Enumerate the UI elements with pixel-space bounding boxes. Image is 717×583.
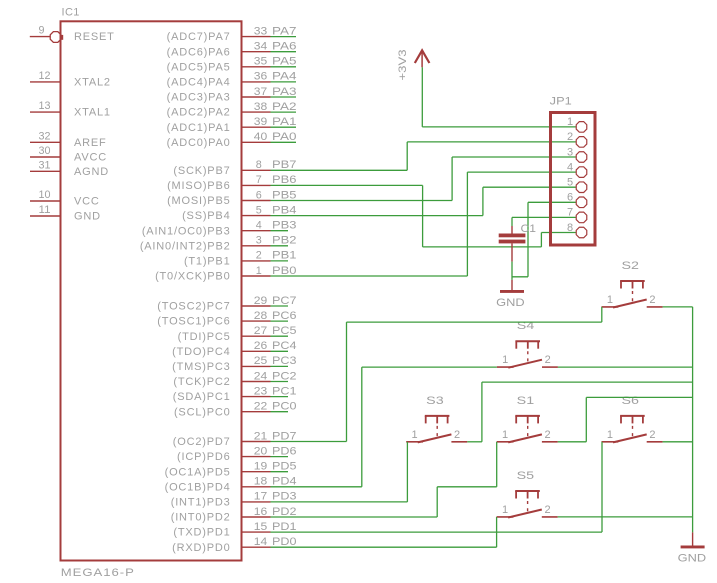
svg-text:(ADC4)PA4: (ADC4)PA4 [167, 77, 231, 89]
wire net PD0 vertical to S5 pin1 [496, 517, 498, 547]
wire net GND S3 horizontal to rail [482, 381, 693, 383]
svg-text:17: 17 [254, 491, 268, 503]
switch S5 actuator dashed link [527, 501, 529, 514]
svg-text:2: 2 [545, 354, 552, 366]
wire stub net PC2 [271, 381, 289, 383]
wire stub net PC1 [271, 396, 289, 398]
wire stub net PA0 [271, 141, 297, 143]
svg-text:PA0: PA0 [272, 131, 297, 143]
wire net PD7 from IC1 pin21 [271, 441, 347, 443]
svg-text:PA1: PA1 [272, 116, 297, 128]
wire net PB0 vertical [466, 172, 468, 276]
svg-text:PA7: PA7 [272, 25, 297, 37]
svg-text:38: 38 [254, 101, 268, 113]
svg-text:35: 35 [254, 56, 268, 68]
capacitor C1 bottom pin lead [511, 243, 513, 261]
switch S1 pin 1 lead [497, 441, 514, 443]
svg-text:27: 27 [254, 325, 268, 337]
wire net PB7 from IC1 pin8 [271, 169, 408, 171]
wire stub net PC4 [271, 350, 289, 352]
svg-text:1: 1 [256, 265, 262, 277]
switch S6 actuator bracket [620, 415, 645, 417]
wire net PD2 horizontal jog [437, 486, 497, 488]
wire net PD7 vertical [346, 322, 348, 441]
IC1 pin 39 (PA1) stub [242, 126, 271, 128]
IC1 pin 22 (PC0) stub [242, 411, 271, 413]
svg-text:GND: GND [74, 211, 101, 223]
IC1 pin 31 (AGND) stub [30, 170, 61, 172]
svg-text:20: 20 [254, 445, 268, 457]
wire net PD2 from IC1 pin16 [271, 516, 438, 518]
JP1 pin 5 octagon pad [576, 182, 587, 193]
svg-text:7: 7 [256, 174, 262, 186]
wire net GND S1 vertical [585, 397, 587, 441]
switch S3 actuator dashed link [436, 426, 438, 439]
wire net GND rail vertical [692, 307, 694, 533]
IC1 pin 13 (XTAL1) stub [30, 111, 61, 113]
svg-text:AREF: AREF [74, 137, 107, 149]
IC1 pin 11 (GND) stub [30, 215, 61, 217]
switch S4 actuator bracket [515, 340, 540, 342]
IC1 pin 9 (RESET) stub [30, 36, 50, 38]
switch S5 pin 1 lead [497, 516, 514, 518]
svg-text:1: 1 [607, 294, 614, 306]
IC1 pin 24 (PC2) stub [242, 381, 271, 383]
svg-text:5: 5 [256, 204, 262, 216]
svg-text:S5: S5 [517, 470, 535, 482]
IC1 pin 8 (PB7) stub [242, 169, 271, 171]
svg-text:PA6: PA6 [272, 41, 297, 53]
svg-text:IC1: IC1 [62, 7, 80, 19]
wire net PD2 vertical [436, 487, 438, 517]
svg-text:16: 16 [254, 506, 268, 518]
svg-text:RESET: RESET [74, 31, 115, 43]
wire stub net PB3 [271, 230, 289, 232]
svg-text:+3V3: +3V3 [397, 50, 409, 81]
svg-text:(AIN0/INT2)PB2: (AIN0/INT2)PB2 [140, 240, 231, 252]
svg-text:5: 5 [567, 177, 574, 189]
svg-text:PC7: PC7 [272, 295, 297, 307]
IC U1: IC1 MEGA16-P body [61, 21, 242, 560]
svg-text:(RXD)PD0: (RXD)PD0 [172, 542, 230, 554]
svg-text:22: 22 [254, 401, 268, 413]
svg-text:(ADC0)PA0: (ADC0)PA0 [167, 137, 231, 149]
IC1 pin 37 (PA3) stub [242, 96, 271, 98]
IC1 pin 2 (PB1) stub [242, 260, 271, 262]
svg-text:S1: S1 [517, 395, 535, 407]
wire net PB6 vertical up to JP1 pin8 [540, 233, 542, 247]
IC1 pin 7 (PB6) stub [242, 184, 271, 186]
svg-text:10: 10 [39, 189, 51, 201]
svg-text:S6: S6 [622, 395, 640, 407]
wire net PD1 from IC1 pin15 [271, 531, 603, 533]
switch S6 pin 2 lead [647, 441, 663, 443]
IC1 pin 20 (PD6) stub [242, 456, 271, 458]
wire net GND from S4 pin2 [558, 366, 693, 368]
IC1 pin 33 (PA7) stub [242, 36, 271, 38]
JP1 pin 1 octagon pad [576, 122, 587, 133]
svg-text:19: 19 [254, 461, 268, 473]
switch S6 pin 1 lead [602, 441, 619, 443]
svg-text:(ADC7)PA7: (ADC7)PA7 [167, 31, 231, 43]
svg-text:PB6: PB6 [272, 174, 297, 186]
switch S3 pin 2 lead [451, 441, 467, 443]
switch S5 lever contact [508, 510, 542, 518]
IC1 pin 6 (PB5) stub [242, 200, 271, 202]
svg-text:32: 32 [39, 130, 51, 142]
wire net PD4 to S4 pin1 [362, 366, 497, 368]
wire net VCC3 vertical to C1 top [511, 217, 513, 226]
svg-text:S2: S2 [622, 260, 640, 272]
svg-text:C1: C1 [521, 223, 537, 235]
wire net PD4 vertical [361, 367, 363, 487]
wire net GND S3 vertical [481, 382, 483, 442]
wire net PD2 vertical to S1 pin1 [496, 442, 498, 487]
switch S1 actuator bracket [515, 415, 540, 417]
wire stub net PC5 [271, 335, 289, 337]
wire net GND from JP1 pin6 [528, 201, 576, 203]
svg-text:PD5: PD5 [272, 461, 297, 473]
svg-text:XTAL2: XTAL2 [74, 77, 111, 89]
wire stub net PB2 [271, 245, 289, 247]
svg-text:2: 2 [454, 429, 461, 441]
wire net PB0 from IC1 pin1 [271, 275, 468, 277]
wire net PB5 to JP1 pin3 [452, 156, 576, 158]
svg-text:GND: GND [496, 297, 525, 309]
svg-text:25: 25 [254, 355, 268, 367]
wire net PD3 vertical to S3 pin1 [406, 442, 408, 502]
ground symbol GND (bottom right) [681, 546, 705, 549]
svg-text:15: 15 [254, 521, 268, 533]
svg-text:PA3: PA3 [272, 86, 297, 98]
wire net +3V3 vertical to JP1 pin1 [421, 67, 423, 127]
svg-text:PB2: PB2 [272, 235, 297, 247]
JP1 pin 8 octagon pad [576, 227, 587, 238]
svg-text:34: 34 [254, 41, 268, 53]
capacitor C1 top pin lead [511, 226, 513, 234]
svg-text:PA2: PA2 [272, 101, 297, 113]
svg-text:PA4: PA4 [272, 71, 297, 83]
wire net PB6 from IC1 pin7 [271, 184, 423, 186]
svg-text:33: 33 [254, 25, 268, 37]
svg-text:1: 1 [502, 504, 509, 516]
capacitor C1 plates [499, 234, 526, 238]
svg-text:(OC1A)PD5: (OC1A)PD5 [165, 466, 231, 478]
wire net PB0 to JP1 pin4 [467, 171, 576, 173]
svg-text:(ADC2)PA2: (ADC2)PA2 [167, 107, 231, 119]
wire stub net PA5 [271, 66, 297, 68]
svg-text:(OC1B)PD4: (OC1B)PD4 [165, 481, 231, 493]
wire stub net PB1 [271, 260, 289, 262]
IC1 pin 18 (PD4) stub [242, 486, 271, 488]
svg-text:6: 6 [256, 189, 262, 201]
switch S1 actuator dashed link [527, 426, 529, 439]
wire net GND rail from S2 pin2 [663, 306, 693, 308]
svg-text:4: 4 [567, 161, 574, 173]
wire stub net PA7 [271, 36, 297, 38]
IC1 pin 34 (PA6) stub [242, 51, 271, 53]
IC1 pin 5 (PB4) stub [242, 215, 271, 217]
switch S3 pin 1 lead [406, 441, 423, 443]
IC1 pin 30 (AVCC) stub [30, 156, 61, 158]
switch S5 pin 2 lead [542, 516, 558, 518]
svg-text:PC5: PC5 [272, 325, 297, 337]
svg-text:(TXD)PD1: (TXD)PD1 [173, 527, 230, 539]
svg-text:(T0/XCK)PB0: (T0/XCK)PB0 [155, 271, 230, 283]
IC1 pin 28 (PC6) stub [242, 320, 271, 322]
svg-text:(MOSI)PB5: (MOSI)PB5 [167, 195, 230, 207]
JP1 pin 3 octagon pad [576, 152, 587, 163]
IC1 pin 27 (PC5) stub [242, 335, 271, 337]
wire net GND S1 horizontal to rail [586, 396, 692, 398]
wire stub net PC3 [271, 365, 289, 367]
IC1 pin 36 (PA4) stub [242, 81, 271, 83]
switch S3 actuator bracket [425, 415, 450, 417]
svg-text:MEGA16-P: MEGA16-P [61, 567, 135, 579]
connector JP1 body [551, 113, 596, 246]
switch S4 pin 1 lead [497, 366, 514, 368]
IC1 pin 35 (PA5) stub [242, 66, 271, 68]
svg-text:1: 1 [412, 429, 419, 441]
svg-text:9: 9 [39, 25, 45, 37]
svg-text:PB4: PB4 [272, 204, 297, 216]
wire net PB5 from IC1 pin6 [271, 200, 453, 202]
svg-text:VCC: VCC [74, 196, 100, 208]
wire net PD3 from IC1 pin17 [271, 501, 408, 503]
IC1 pin 29 (PC7) stub [242, 305, 271, 307]
svg-text:13: 13 [39, 100, 51, 112]
IC1 pin 32 (AREF) stub [30, 141, 61, 143]
svg-text:PC4: PC4 [272, 340, 297, 352]
svg-text:2: 2 [256, 250, 262, 262]
svg-text:(MISO)PB6: (MISO)PB6 [167, 180, 230, 192]
switch S6 actuator dashed link [632, 426, 634, 439]
svg-text:PC0: PC0 [272, 401, 297, 413]
svg-text:12: 12 [39, 70, 51, 82]
wire net GND from S6 pin2 [663, 441, 693, 443]
svg-text:29: 29 [254, 295, 268, 307]
svg-text:4: 4 [256, 220, 262, 232]
JP1 pin 2 octagon pad [576, 137, 587, 148]
svg-text:2: 2 [567, 131, 574, 143]
svg-text:8: 8 [256, 159, 262, 171]
switch S2 pin 1 lead [602, 306, 619, 308]
wire net GND from S1 pin2 [558, 441, 587, 443]
svg-text:JP1: JP1 [550, 96, 572, 108]
switch S4 actuator dashed link [527, 351, 529, 364]
wire net PB7 vertical [406, 142, 408, 170]
svg-text:PD2: PD2 [272, 506, 297, 518]
wire stub net PC0 [271, 411, 289, 413]
svg-text:PC3: PC3 [272, 355, 297, 367]
IC1 pin 23 (PC1) stub [242, 396, 271, 398]
wire net PB6 to JP1 pin8 [541, 232, 576, 234]
svg-text:37: 37 [254, 86, 268, 98]
svg-text:1: 1 [567, 116, 574, 128]
svg-text:PB1: PB1 [272, 250, 297, 262]
svg-text:(SCK)PB7: (SCK)PB7 [173, 165, 230, 177]
svg-text:(TDO)PC4: (TDO)PC4 [172, 346, 230, 358]
svg-text:24: 24 [254, 370, 268, 382]
wire stub net PA4 [271, 81, 297, 83]
switch S6 lever contact [613, 434, 647, 442]
svg-text:1: 1 [502, 429, 509, 441]
svg-text:(TDI)PC5: (TDI)PC5 [178, 331, 231, 343]
wire stub net PA1 [271, 126, 297, 128]
wire net PB4 vertical [482, 187, 484, 215]
wire stub net PD5 [271, 471, 289, 473]
svg-text:21: 21 [254, 430, 268, 442]
svg-text:(INT1)PD3: (INT1)PD3 [171, 497, 231, 509]
svg-text:AVCC: AVCC [74, 152, 107, 164]
svg-text:(SS)PB4: (SS)PB4 [182, 210, 230, 222]
wire net PD0 from IC1 pin14 [271, 546, 497, 548]
wire net PD4 from IC1 pin18 [271, 486, 362, 488]
svg-text:GND: GND [678, 553, 707, 565]
svg-text:6: 6 [567, 192, 574, 204]
svg-text:1: 1 [502, 354, 509, 366]
svg-text:PC6: PC6 [272, 310, 297, 322]
switch S4 lever contact [508, 360, 542, 368]
svg-text:(ADC3)PA3: (ADC3)PA3 [167, 92, 231, 104]
JP1 pin 4 octagon pad [576, 167, 587, 178]
switch S2 actuator dashed link [632, 291, 634, 304]
IC1 pin 4 (PB3) stub [242, 230, 271, 232]
svg-text:40: 40 [254, 131, 268, 143]
svg-text:PB3: PB3 [272, 220, 297, 232]
svg-text:39: 39 [254, 116, 268, 128]
wire net GND from S5 pin2 [558, 516, 693, 518]
wire net PD1 vertical to S6 pin1 [601, 442, 603, 532]
svg-text:PB7: PB7 [272, 159, 297, 171]
svg-text:(ICP)PD6: (ICP)PD6 [177, 451, 230, 463]
svg-text:XTAL1: XTAL1 [74, 107, 111, 119]
switch S3 lever contact [418, 434, 452, 442]
IC1 pin 3 (PB2) stub [242, 245, 271, 247]
svg-text:14: 14 [254, 536, 268, 548]
svg-text:AGND: AGND [74, 166, 109, 178]
switch S1 lever contact [508, 434, 542, 442]
svg-text:(ADC1)PA1: (ADC1)PA1 [167, 122, 231, 134]
svg-text:3: 3 [256, 235, 262, 247]
svg-text:(TMS)PC3: (TMS)PC3 [172, 361, 230, 373]
switch S5 actuator bracket [515, 490, 540, 492]
svg-text:PD7: PD7 [272, 430, 297, 442]
svg-text:PA5: PA5 [272, 56, 297, 68]
svg-text:(TCK)PC2: (TCK)PC2 [173, 376, 230, 388]
svg-text:31: 31 [39, 159, 51, 171]
IC1 pin 19 (PD5) stub [242, 471, 271, 473]
wire net PD7 horizontal to S2 [347, 321, 602, 323]
svg-text:7: 7 [567, 207, 574, 219]
IC1 pin 10 (VCC) stub [30, 200, 61, 202]
svg-text:30: 30 [39, 145, 51, 157]
wire net PB7 to JP1 pin2 [407, 141, 576, 143]
svg-text:2: 2 [545, 429, 552, 441]
svg-text:PC2: PC2 [272, 370, 297, 382]
svg-text:2: 2 [649, 429, 656, 441]
IC1 pin 14 (PD0) stub [242, 546, 271, 548]
ground symbol GND (below C1) [500, 290, 524, 293]
wire net PB4 from IC1 pin5 [271, 215, 483, 217]
wire stub net PA6 [271, 51, 297, 53]
wire C1 bottom lead to GND [511, 262, 513, 280]
svg-text:23: 23 [254, 385, 268, 397]
switch S2 pin 2 lead [647, 306, 663, 308]
IC1 pin 40 (PA0) stub [242, 141, 271, 143]
svg-text:(ADC6)PA6: (ADC6)PA6 [167, 46, 231, 58]
wire net +3V3 horizontal to JP1 pin1 [422, 126, 576, 128]
svg-text:(SCL)PC0: (SCL)PC0 [174, 406, 231, 418]
svg-text:(INT0)PD2: (INT0)PD2 [171, 512, 231, 524]
svg-text:(TOSC1)PC6: (TOSC1)PC6 [157, 316, 230, 328]
svg-text:PD4: PD4 [272, 476, 297, 488]
IC1 pin 25 (PC3) stub [242, 365, 271, 367]
wire stub net PC6 [271, 320, 289, 322]
wire stub net PC7 [271, 305, 289, 307]
svg-text:26: 26 [254, 340, 268, 352]
IC1 pin 21 (PD7) stub [242, 441, 271, 443]
svg-text:1: 1 [607, 429, 614, 441]
wire stub net PA3 [271, 96, 297, 98]
switch S4 pin 2 lead [542, 366, 558, 368]
svg-text:PC1: PC1 [272, 385, 297, 397]
svg-text:2: 2 [544, 504, 551, 516]
wire net VCC3 from JP1 pin7 [512, 216, 576, 218]
wire net PD7 vertical to S2 pin1 [601, 307, 603, 322]
wire stub net PD6 [271, 456, 289, 458]
wire net GND horizontal to C1 [512, 276, 528, 278]
IC1 pin 17 (PD3) stub [242, 501, 271, 503]
svg-text:(AIN1/OC0)PB3: (AIN1/OC0)PB3 [142, 225, 231, 237]
svg-text:PD3: PD3 [272, 491, 297, 503]
svg-text:11: 11 [39, 204, 51, 216]
GND symbol pin below C1 [511, 280, 513, 290]
svg-text:PD0: PD0 [272, 536, 297, 548]
svg-text:2: 2 [649, 294, 656, 306]
JP1 pin 7 octagon pad [576, 212, 587, 223]
svg-text:(SDA)PC1: (SDA)PC1 [173, 391, 231, 403]
switch S2 actuator bracket [620, 280, 645, 282]
switch S1 pin 2 lead [542, 441, 558, 443]
IC1 pin 38 (PA2) stub [242, 111, 271, 113]
svg-text:PD6: PD6 [272, 445, 297, 457]
svg-text:36: 36 [254, 71, 268, 83]
svg-text:PD1: PD1 [272, 521, 297, 533]
wire net GND vertical from JP1 pin6 [527, 202, 529, 276]
svg-text:(T1)PB1: (T1)PB1 [184, 256, 231, 268]
svg-text:8: 8 [567, 222, 574, 234]
supply symbol +3V3 arrow [415, 50, 430, 63]
IC1 pin 26 (PC4) stub [242, 350, 271, 352]
svg-text:PB5: PB5 [272, 189, 297, 201]
GND symbol pin bottom right [692, 532, 694, 545]
svg-text:28: 28 [254, 310, 268, 322]
svg-text:PB0: PB0 [272, 265, 297, 277]
IC1 pin 1 (PB0) stub [242, 275, 271, 277]
switch S2 lever contact [613, 300, 647, 308]
svg-text:(TOSC2)PC7: (TOSC2)PC7 [157, 301, 230, 313]
svg-text:(OC2)PD7: (OC2)PD7 [173, 436, 231, 448]
IC1 pin 16 (PD2) stub [242, 516, 271, 518]
svg-text:S3: S3 [426, 395, 444, 407]
svg-text:(ADC5)PA5: (ADC5)PA5 [167, 61, 231, 73]
IC1 pin 15 (PD1) stub [242, 531, 271, 533]
wire stub net PA2 [271, 111, 297, 113]
svg-text:3: 3 [567, 146, 574, 158]
IC1 pin 12 (XTAL2) stub [30, 81, 61, 83]
wire net PB6 horizontal [423, 246, 542, 248]
